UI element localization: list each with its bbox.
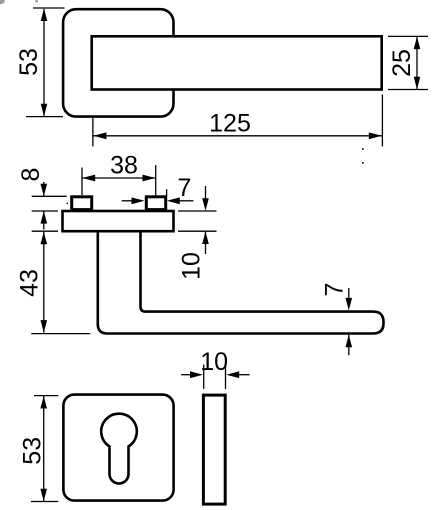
speck right upper [362,148,364,150]
dim 125 arrow right [369,132,382,139]
dim 10 bottom left extension line [203,365,205,390]
euro keyhole [101,414,137,484]
right extension line plate top [178,210,217,212]
dim 8 arrow down [41,184,48,197]
extension line lever bottom [31,333,90,335]
speck near left lug [67,203,68,204]
fixing lug left (side view) [72,197,92,210]
dim 125 dimension line [93,135,382,137]
svg-text:7: 7 [178,174,192,202]
dim 25 arrow up [414,37,421,50]
dim 25 bottom extension line [388,89,428,91]
dim 10 side arrow up [202,232,209,245]
svg-text:10: 10 [200,348,228,376]
dim 43 dimension line [43,232,45,333]
speck right lower [362,162,364,164]
speck top left corner [0,0,5,5]
dim 7 lever lower arrow line [348,335,350,356]
svg-text:7: 7 [321,283,349,297]
left extension line plate top [32,210,58,212]
dim 25 arrow down [414,77,421,90]
svg-text:43: 43 [16,269,44,297]
dim 53 bottom arrow down [40,489,47,502]
dim 7 lug right arrow line [178,200,194,202]
dim 125 arrow left [93,132,106,139]
fixing lug right (side view) [146,197,165,210]
dim 53 arrow up [41,9,48,22]
dim 8 arrow up [41,211,48,224]
dim 53 bottom top extension line [34,395,58,397]
svg-text:53: 53 [19,437,47,465]
speck top edge [35,0,38,3]
dim 53 bottom dimension line [43,396,45,501]
svg-text:25: 25 [388,49,416,77]
dim 38 arrow left [82,175,95,182]
dim 8 upper line [43,182,45,196]
left extension line plate bottom [32,230,58,232]
dim 10 side upper arrow line [205,186,207,200]
dim 53 arrow down [41,104,48,117]
dim 7 lug arrow pointing right [132,197,145,204]
dim 10 bottom right arrow line [237,374,250,376]
dim 10 side arrow down [202,198,209,211]
dim 53 dimension line (top view) [43,9,45,116]
rosette plate (side view) [63,211,174,231]
dim 53 bottom extension line (top view) [26,116,63,118]
dim 38 dimension line [82,177,156,179]
dim 38 left extension line [81,168,83,196]
svg-text:10: 10 [178,252,206,280]
dim 7 lever arrow down [346,298,353,311]
dim 125 right extension line [381,95,383,147]
dim 53 bottom bottom extension line [31,501,58,503]
dim 10 bottom left arrow line [181,374,192,376]
lever arm rectangle (top view) [92,36,382,89]
dim 7 lever upper arrow line [348,288,350,300]
dim 25 dimension line [416,36,418,89]
side plate (edge view) [203,395,225,504]
dim 10 bottom right extension line [225,365,227,390]
dim 8 lower line [43,211,45,229]
dim 10 bottom arrow pointing right [190,371,203,378]
rosette square (top view) [63,9,173,116]
left extension line lug top [32,195,67,197]
dim 7 lug left arrow line [122,200,134,202]
handle neck and lever outline (side view) [98,231,384,333]
dim 43 arrow up [41,232,48,245]
svg-text:125: 125 [209,109,251,137]
dim 38 arrow right [143,175,156,182]
key rosette square (bottom view) [63,395,173,501]
dim 7 lug arrow pointing left [167,197,180,204]
svg-text:38: 38 [110,152,138,180]
dim 43 arrow down [41,320,48,333]
dim 10 bottom arrow pointing left [226,371,239,378]
svg-text:53: 53 [15,48,43,76]
dim 7 lever arrow up [346,335,353,348]
dim 25 top extension line [388,35,428,37]
dim 7 lug right extension line [166,189,168,196]
dim 38 right extension line [155,165,157,196]
dim 125 left extension line [92,118,94,146]
dim 10 side lower arrow line [205,231,207,254]
dim 53 top extension line (top view) [33,7,65,9]
right extension line plate bottom [178,230,217,232]
dim 53 bottom arrow up [40,396,47,409]
svg-text:8: 8 [17,168,45,182]
